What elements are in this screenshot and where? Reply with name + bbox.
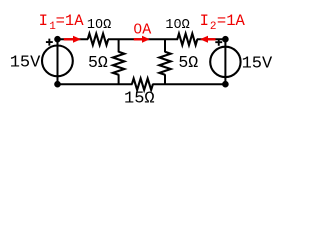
voltage source V2 circle [210, 47, 240, 77]
wire V2 vertical line through source [224, 39, 226, 84]
resistor R3 5ohm left zigzag [113, 52, 124, 75]
wire left 5ohm bottom stub [118, 74, 120, 84]
resistor R1 10ohm zigzag [88, 34, 109, 45]
node dot V2 top [222, 36, 229, 43]
svg-text:15Ω: 15Ω [124, 90, 155, 109]
wire bottom left segment [58, 83, 133, 85]
wire bottom right segment [152, 83, 225, 85]
svg-text:I: I [39, 12, 48, 30]
wire right 5ohm top stub [164, 39, 166, 52]
wire right 5ohm bottom stub [164, 74, 166, 84]
label I2=1A [200, 12, 246, 33]
svg-text:2: 2 [210, 21, 217, 33]
plus sign V1 [46, 39, 53, 46]
resistor R2 10ohm zigzag [177, 34, 197, 45]
svg-text:=1A: =1A [56, 12, 85, 30]
resistor R4 5ohm right zigzag [159, 52, 170, 75]
wire top middle segment (R1 to R2) [108, 38, 178, 40]
wire top left segment (node A to R1) [58, 38, 89, 40]
plus sign V2 [215, 39, 222, 46]
svg-text:0A: 0A [133, 22, 151, 39]
node dot V2 bottom [222, 81, 229, 88]
svg-text:=1A: =1A [217, 12, 246, 30]
current arrow 0A (right) [134, 36, 150, 43]
svg-text:I: I [200, 12, 209, 30]
current arrow I1 (right) [64, 36, 81, 43]
white cover over mono zero dot (10ohm right) [176, 23, 179, 26]
current arrow I2 (left) [200, 36, 216, 43]
voltage source V1 circle [42, 46, 73, 77]
node dot V1 top [54, 36, 61, 43]
svg-text:15V: 15V [242, 54, 273, 73]
wire top right segment (R2 to node D) [197, 38, 226, 40]
svg-text:10Ω: 10Ω [87, 18, 111, 33]
node dot V1 bottom [54, 81, 61, 88]
resistor R5 15ohm zigzag [132, 79, 153, 90]
white cover over mono zero dot (0A) [137, 28, 140, 31]
wire left 5ohm top stub [118, 39, 120, 52]
svg-text:5Ω: 5Ω [88, 53, 108, 72]
label I1=1A [39, 12, 85, 33]
wire V1 vertical line through source [57, 39, 59, 84]
svg-text:15V: 15V [10, 54, 41, 73]
svg-text:5Ω: 5Ω [178, 53, 198, 72]
svg-text:10Ω: 10Ω [165, 18, 189, 33]
white cover over mono zero dot (10ohm left) [98, 23, 101, 26]
